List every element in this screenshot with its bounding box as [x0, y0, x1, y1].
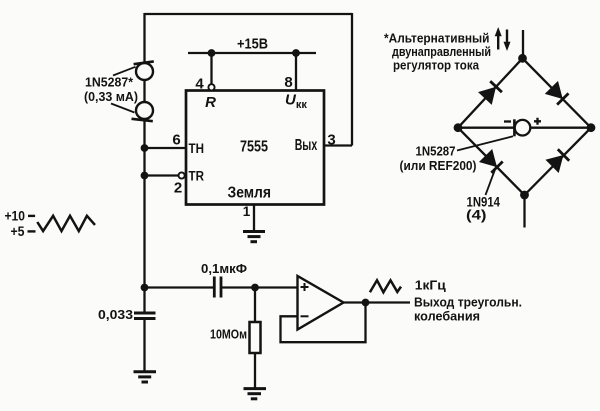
pin 4 open circle	[208, 84, 214, 90]
svg-text:6: 6	[172, 132, 180, 149]
svg-text:+10: +10	[5, 209, 26, 224]
wire: 0,033 cap to ground	[143, 319, 145, 372]
wire: pin 8 drop	[295, 53, 297, 91]
waveform: output triangle wave sketch	[370, 280, 401, 292]
current regulator diode D7 1N5287 in bridge center	[514, 119, 530, 136]
level dash for +10	[28, 215, 35, 217]
ground symbol under C2	[134, 372, 157, 382]
wire: pin-3 vertical riser	[351, 13, 353, 146]
svg-text:TH: TH	[189, 141, 205, 156]
wire: 10M resistor to ground	[254, 353, 256, 388]
svg-text:4: 4	[195, 76, 204, 93]
current regulator diode D2 1N5287 (circle with bar)	[132, 102, 154, 121]
wire: node to 0,1uF cap	[145, 286, 215, 288]
wire: TH pin 6	[145, 147, 187, 149]
op-amp U2	[298, 276, 344, 330]
wire: 0,1uF cap to op-amp	[221, 286, 298, 288]
wire: top feedback wire from current source to pin 3	[145, 13, 353, 15]
capacitor C2 0,033	[134, 313, 156, 319]
junction dot at TR node	[141, 172, 149, 180]
leader line to D2	[111, 104, 135, 113]
svg-text:Вых: Вых	[295, 137, 318, 154]
junction dot at TH node	[141, 144, 149, 152]
junction dot at op-amp output	[362, 299, 370, 307]
diode D6 1N914 lower-right	[547, 149, 569, 171]
svg-text:2: 2	[174, 180, 182, 197]
wire: pin 1 ground lead	[253, 205, 255, 232]
junction dot bridge top	[518, 54, 527, 63]
svg-text:(0,33 мА): (0,33 мА)	[84, 90, 138, 104]
diode D4 1N914 upper-right	[546, 82, 568, 104]
wire: TR pin 2	[145, 174, 179, 176]
svg-text:R: R	[205, 94, 216, 111]
svg-text:+15В: +15В	[237, 37, 268, 53]
bidirectional current arrows	[495, 27, 511, 51]
leader line to D1	[113, 67, 136, 76]
resistor R1 10MOhm	[250, 322, 261, 353]
junction at pin4 riser	[208, 49, 216, 57]
junction at pin8 riser	[292, 49, 300, 57]
wire: +15V rail	[188, 52, 316, 54]
polarity minus sign	[504, 120, 511, 122]
polarity plus sign	[534, 118, 541, 125]
svg-text:регулятор тока: регулятор тока	[393, 57, 480, 72]
wire: left vertical rail	[143, 13, 145, 313]
level dash for +5	[28, 230, 36, 232]
leader line to bridge center diode	[457, 136, 513, 150]
junction dot bridge bottom	[520, 191, 529, 200]
wire: pin 4 drop	[210, 53, 212, 84]
waveform: triangle wave sketch at TH node	[37, 216, 95, 231]
svg-text:Земля: Земля	[228, 185, 272, 202]
wire: node down to 10M resistor	[254, 288, 256, 323]
svg-text:TR: TR	[189, 169, 205, 184]
wire: op-amp feedback loop	[281, 303, 366, 343]
svg-text:10МОм: 10МОм	[210, 326, 247, 341]
diode D3 1N914 upper-left	[480, 81, 502, 103]
svg-text:Выход треугольн.: Выход треугольн.	[414, 294, 522, 309]
wire: bridge bottom lead	[523, 195, 525, 228]
ground symbol under pin 1	[243, 232, 265, 242]
capacitor C1 0,1uF	[214, 277, 221, 298]
ground symbol under R1	[244, 389, 267, 399]
svg-text:0,1мкФ: 0,1мкФ	[201, 261, 247, 276]
svg-text:(4): (4)	[466, 206, 487, 222]
junction dot bridge left	[454, 123, 463, 132]
wire: bridge horizontal center link	[458, 127, 591, 129]
svg-text:1кГц: 1кГц	[415, 278, 446, 293]
svg-text:(или REF200): (или REF200)	[400, 158, 477, 173]
wire: bridge top lead	[522, 30, 524, 58]
svg-text:0,033: 0,033	[98, 307, 133, 322]
svg-text:3: 3	[327, 132, 335, 149]
svg-text:колебания: колебания	[414, 308, 480, 323]
TR open circle	[179, 172, 185, 178]
junction dot at op-amp input node	[251, 284, 259, 292]
junction dot bridge right	[587, 123, 596, 132]
svg-text:1N5287: 1N5287	[416, 144, 456, 159]
junction dot at C1 node	[141, 284, 149, 292]
wire: pin 3 horizontal to box	[324, 144, 352, 146]
current regulator diode D1 1N5287 (circle with bar)	[134, 61, 154, 80]
leader line to lower-left diode	[486, 170, 496, 196]
svg-text:1N5287*: 1N5287*	[85, 76, 133, 90]
7555 timer U1 box	[186, 91, 324, 205]
svg-text:8: 8	[284, 74, 292, 91]
svg-text:+5: +5	[11, 224, 25, 239]
wire: op-amp output	[344, 301, 411, 303]
svg-text:7555: 7555	[240, 139, 268, 156]
diode D5 1N914 lower-left	[480, 150, 502, 172]
bridge diamond wiring	[458, 58, 591, 195]
svg-text:1: 1	[243, 204, 251, 219]
